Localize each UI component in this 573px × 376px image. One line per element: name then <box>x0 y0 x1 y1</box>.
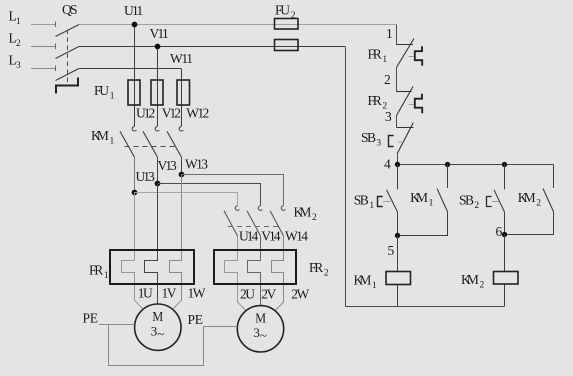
svg-text:FR: FR <box>309 260 323 275</box>
svg-text:1: 1 <box>16 17 21 27</box>
svg-text:6: 6 <box>496 224 503 239</box>
svg-text:1W: 1W <box>188 286 206 301</box>
svg-text:2V: 2V <box>261 287 276 302</box>
svg-text:3: 3 <box>16 61 21 71</box>
svg-text:2: 2 <box>474 201 479 211</box>
svg-text:3: 3 <box>376 139 381 149</box>
svg-text:W12: W12 <box>186 106 209 121</box>
svg-text:U14: U14 <box>239 229 258 244</box>
svg-text:1U: 1U <box>138 286 153 301</box>
svg-text:1V: 1V <box>162 286 177 301</box>
svg-text:2: 2 <box>312 213 317 223</box>
svg-text:FU: FU <box>94 83 109 98</box>
svg-text:2: 2 <box>382 102 387 112</box>
svg-text:2: 2 <box>324 269 329 279</box>
svg-text:KM: KM <box>294 205 312 220</box>
svg-text:1: 1 <box>386 26 393 41</box>
svg-text:FU: FU <box>275 3 290 18</box>
svg-text:1: 1 <box>372 281 377 291</box>
svg-text:W11: W11 <box>170 51 193 66</box>
svg-text:4: 4 <box>384 157 391 172</box>
svg-text:W14: W14 <box>285 229 308 244</box>
svg-text:FR: FR <box>368 47 382 62</box>
svg-text:2: 2 <box>480 281 485 291</box>
svg-text:3~: 3~ <box>253 325 267 343</box>
svg-text:FR: FR <box>89 263 103 278</box>
svg-text:2W: 2W <box>291 287 309 302</box>
svg-text:1: 1 <box>104 271 109 281</box>
svg-text:FR: FR <box>368 93 382 108</box>
svg-text:1: 1 <box>429 199 434 209</box>
svg-text:2: 2 <box>291 11 296 21</box>
svg-text:SB: SB <box>354 193 369 208</box>
svg-text:2: 2 <box>384 72 391 87</box>
svg-text:SB: SB <box>459 193 474 208</box>
svg-text:KM: KM <box>410 190 428 205</box>
svg-text:2U: 2U <box>240 287 255 302</box>
svg-text:U12: U12 <box>136 106 155 121</box>
svg-text:V14: V14 <box>261 229 280 244</box>
svg-text:QS: QS <box>62 2 78 17</box>
svg-text:KM: KM <box>461 272 479 287</box>
svg-text:V12: V12 <box>162 106 181 121</box>
svg-text:3~: 3~ <box>151 324 165 342</box>
svg-text:KM: KM <box>354 273 372 288</box>
svg-text:1: 1 <box>382 55 387 65</box>
svg-text:KM: KM <box>518 190 536 205</box>
svg-text:1: 1 <box>369 201 374 211</box>
svg-text:1: 1 <box>110 137 115 147</box>
svg-text:U11: U11 <box>124 3 143 18</box>
svg-text:U13: U13 <box>136 169 155 184</box>
svg-text:KM: KM <box>91 128 109 143</box>
svg-text:1: 1 <box>110 92 115 102</box>
svg-text:SB: SB <box>361 130 376 145</box>
svg-text:2: 2 <box>16 39 21 49</box>
svg-text:2: 2 <box>536 199 541 209</box>
svg-text:V11: V11 <box>150 26 169 41</box>
svg-text:PE: PE <box>83 311 99 326</box>
svg-text:V13: V13 <box>158 158 177 173</box>
svg-text:5: 5 <box>388 243 395 258</box>
svg-text:PE: PE <box>188 312 204 327</box>
svg-text:W13: W13 <box>185 157 208 172</box>
